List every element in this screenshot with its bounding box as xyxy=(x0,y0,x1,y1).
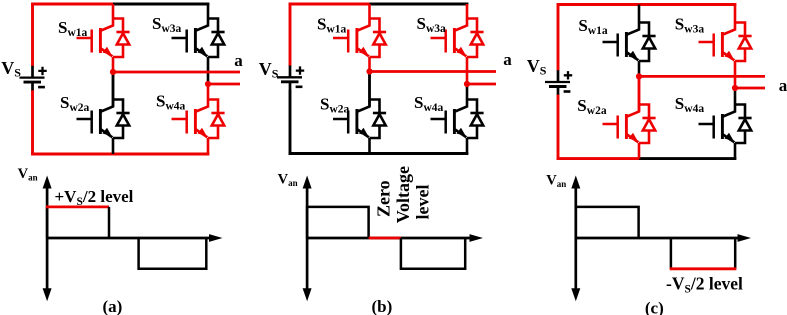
svg-text:Sw1a: Sw1a xyxy=(578,16,608,37)
svg-text:Zero: Zero xyxy=(374,180,394,217)
svg-text:Sw4a: Sw4a xyxy=(414,93,444,114)
svg-text:+VS/2 level: +VS/2 level xyxy=(55,187,134,208)
svg-text:a: a xyxy=(234,51,243,70)
svg-text:a: a xyxy=(779,76,787,95)
svg-text:-VS/2 level: -VS/2 level xyxy=(666,274,743,296)
svg-text:Sw3a: Sw3a xyxy=(675,15,705,36)
svg-text:Sw1a: Sw1a xyxy=(58,18,88,39)
svg-text:(b): (b) xyxy=(372,297,393,315)
svg-text:Sw3a: Sw3a xyxy=(417,14,447,35)
svg-text:Sw2a: Sw2a xyxy=(577,96,607,117)
svg-text:Sw3a: Sw3a xyxy=(152,14,182,35)
svg-text:VS: VS xyxy=(1,58,21,80)
svg-text:a: a xyxy=(503,50,512,69)
svg-text:Sw1a: Sw1a xyxy=(317,15,347,36)
svg-text:VS: VS xyxy=(259,59,279,81)
svg-text:(c): (c) xyxy=(645,299,664,315)
svg-text:(a): (a) xyxy=(102,297,122,315)
svg-text:VS: VS xyxy=(527,56,547,78)
svg-text:Voltage: Voltage xyxy=(393,166,413,223)
svg-text:Van: Van xyxy=(546,173,566,190)
svg-text:Sw2a: Sw2a xyxy=(320,95,350,116)
svg-text:Sw2a: Sw2a xyxy=(60,93,90,114)
svg-text:level: level xyxy=(413,185,433,220)
svg-text:Van: Van xyxy=(18,166,38,183)
svg-text:Van: Van xyxy=(278,172,298,189)
svg-text:Sw4a: Sw4a xyxy=(675,94,705,115)
svg-text:Sw4a: Sw4a xyxy=(156,92,186,113)
